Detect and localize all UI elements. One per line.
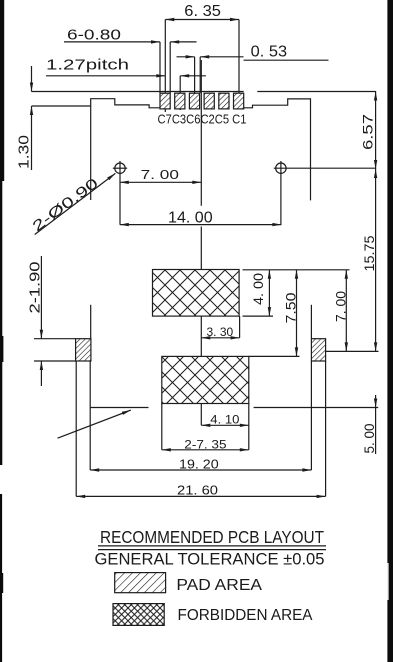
svg-text:4. 10: 4. 10	[210, 412, 240, 426]
legend pad area swatch	[115, 573, 166, 593]
label 2-O0.90 leader	[30, 172, 117, 235]
dimension 3.30	[201, 316, 239, 339]
extension line side pad centerline	[326, 350, 379, 352]
svg-text:7. 00: 7. 00	[141, 167, 179, 182]
svg-text:2-1.90: 2-1.90	[27, 262, 43, 314]
hole right	[274, 161, 376, 225]
dimension 7.00 vertical	[334, 270, 349, 352]
body front edge	[90, 407, 148, 409]
svg-text:19. 20: 19. 20	[179, 456, 219, 471]
scan border right bar	[387, 0, 393, 662]
body top edge line left span	[32, 91, 244, 93]
body outline right step	[244, 99, 311, 200]
dimension 15.75	[361, 169, 377, 351]
dimension 7.50	[284, 270, 299, 357]
label 0.53	[177, 44, 329, 94]
svg-text:6-0.80: 6-0.80	[67, 27, 121, 43]
forbidden area lower rect	[162, 356, 249, 403]
svg-text:5. 00: 5. 00	[362, 424, 377, 454]
dimension 6.35	[165, 3, 239, 112]
pad C3	[175, 93, 185, 109]
body right edge lower	[310, 305, 312, 339]
body left edge lower	[90, 305, 92, 339]
dimension 4.10	[201, 404, 249, 450]
svg-text:7. 00: 7. 00	[334, 291, 349, 322]
svg-text:7.50: 7.50	[284, 293, 299, 324]
svg-text:6.57: 6.57	[360, 114, 376, 150]
body outline verticals below side pads	[75, 361, 77, 496]
body top edge line right span	[257, 91, 376, 93]
dimension 6.57	[360, 92, 378, 170]
svg-text:C7C3C6C2C5 C1: C7C3C6C2C5 C1	[158, 112, 247, 126]
pad C6	[189, 93, 199, 109]
svg-text:RECOMMENDED PCB LAYOUT: RECOMMENDED PCB LAYOUT	[100, 527, 324, 547]
side pad left	[76, 339, 91, 361]
dimension 21.60	[76, 482, 325, 498]
pad C1	[234, 93, 244, 109]
svg-text:21. 60: 21. 60	[177, 482, 218, 497]
svg-text:4. 00: 4. 00	[251, 273, 266, 305]
body outline left step	[91, 99, 160, 200]
legend title double underline	[98, 545, 326, 547]
svg-text:PAD AREA: PAD AREA	[176, 577, 262, 594]
svg-text:3. 30: 3. 30	[207, 325, 234, 339]
dimension 19.20	[90, 456, 311, 471]
pad C7	[160, 93, 170, 109]
dimension 2-7.35	[162, 404, 249, 452]
svg-text:1.27pitch: 1.27pitch	[46, 58, 129, 74]
svg-text:1.30: 1.30	[17, 135, 33, 169]
dimension 5.00	[362, 395, 377, 454]
dimension 2-1.90	[27, 256, 75, 386]
svg-text:FORBIDDEN AREA: FORBIDDEN AREA	[178, 607, 313, 624]
dimension 1.30	[17, 66, 91, 170]
pad C2	[204, 93, 214, 109]
leader arrow to front edge	[58, 409, 132, 439]
svg-text:0. 53: 0. 53	[251, 44, 287, 61]
label 1.27pitch	[46, 58, 206, 111]
dimension 7.00 horizontal	[120, 167, 202, 184]
svg-text:GENERAL TOLERANCE ±0.05: GENERAL TOLERANCE ±0.05	[95, 550, 325, 569]
extension line lower rect top right	[249, 355, 300, 357]
centerline	[200, 60, 202, 206]
dimension 4.00	[243, 270, 350, 316]
forbidden area upper rect	[153, 270, 240, 317]
label 6-0.80	[64, 27, 197, 93]
svg-text:15.75: 15.75	[361, 235, 377, 271]
hole left	[113, 161, 127, 225]
legend forbidden area swatch	[113, 604, 164, 626]
side pad right	[311, 339, 325, 361]
pad C5	[219, 93, 229, 109]
svg-text:6. 35: 6. 35	[184, 3, 221, 20]
dimension 14.00	[120, 209, 282, 226]
scan border left bar	[0, 0, 4, 662]
svg-text:14. 00: 14. 00	[168, 209, 213, 226]
